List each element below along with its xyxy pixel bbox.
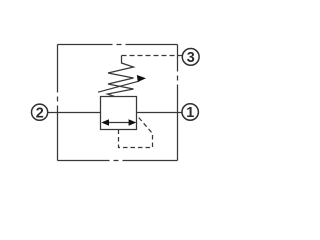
svg-text:3: 3 bbox=[187, 50, 195, 66]
svg-text:2: 2 bbox=[36, 105, 44, 121]
svg-text:1: 1 bbox=[186, 105, 194, 121]
